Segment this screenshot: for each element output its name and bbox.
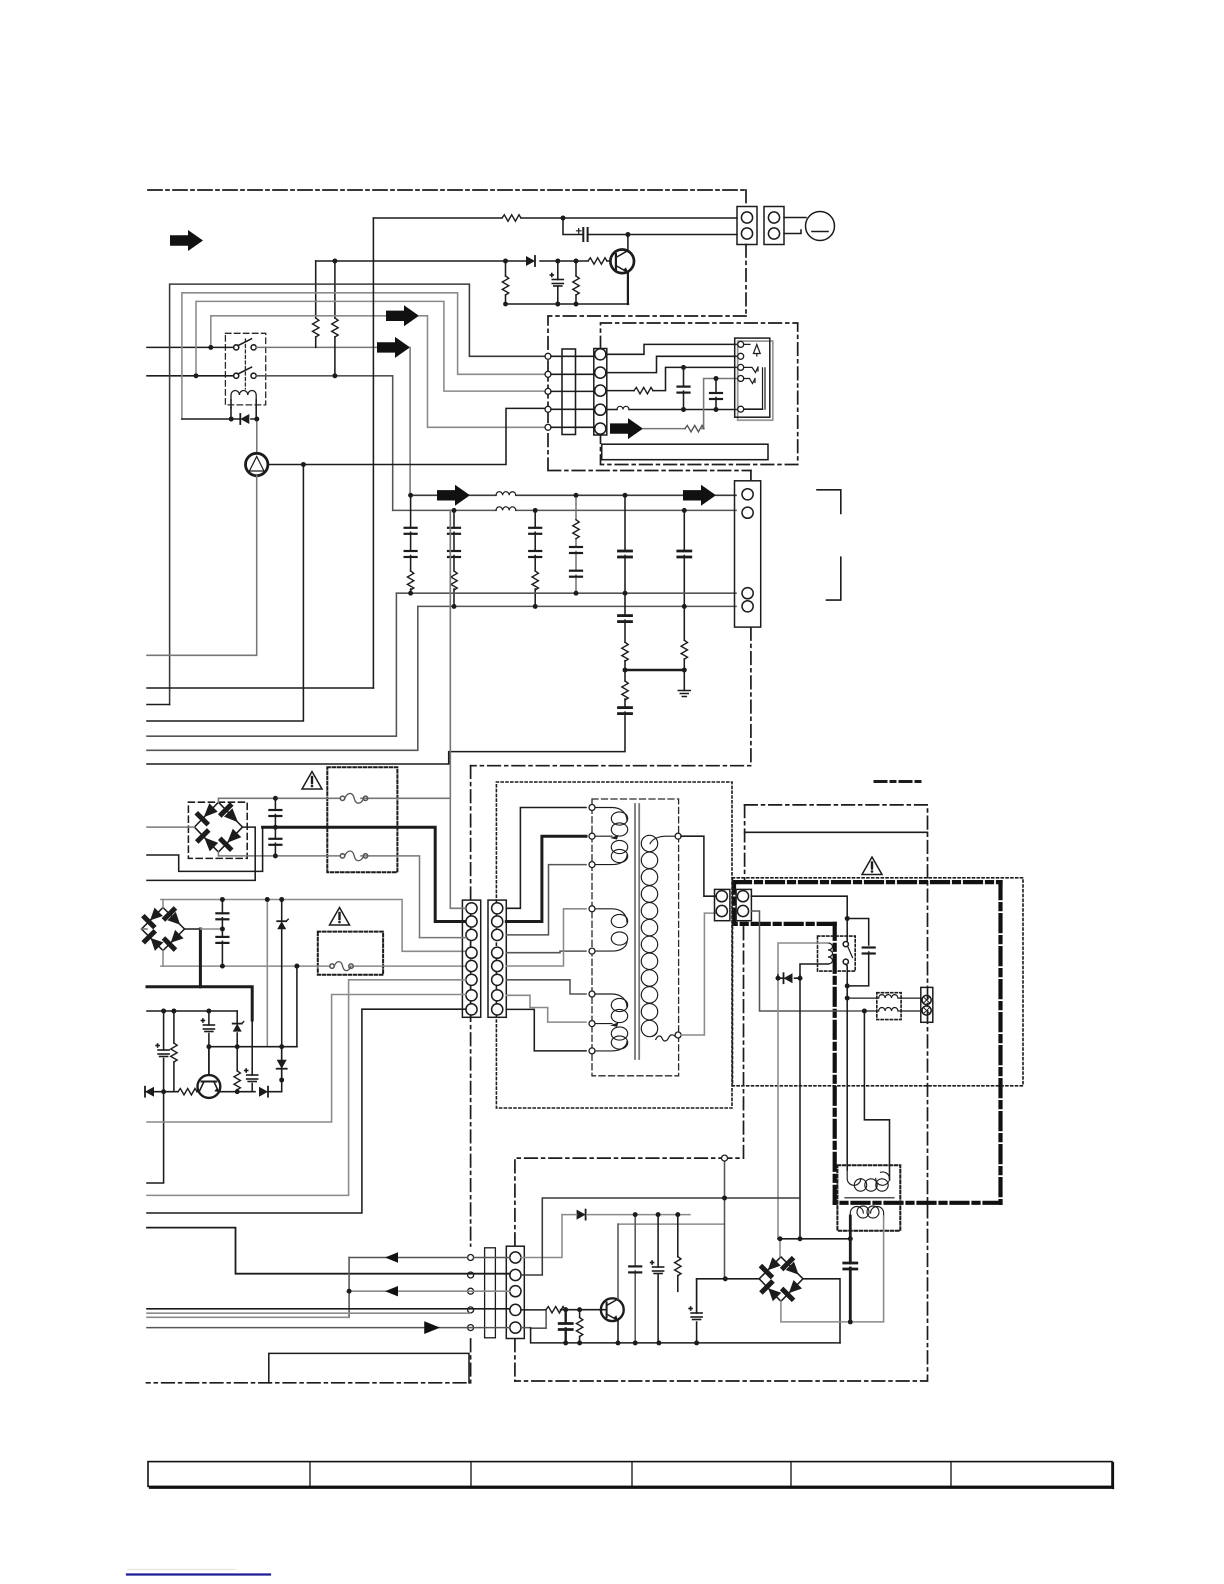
- dash-dot right module box top and right: [515, 805, 928, 1381]
- node N rail x535: [533, 508, 538, 513]
- relay K2 pin1: [738, 341, 744, 347]
- wire y1239 link: [778, 1238, 850, 1240]
- node x222 y929: [220, 927, 225, 932]
- relay K2 pin5: [738, 406, 744, 412]
- wire Q1 emitter: [627, 272, 629, 304]
- wire J3 pin3 res: [606, 367, 738, 390]
- node x209 y1047: [207, 1044, 212, 1049]
- node y1011 x174: [172, 1009, 177, 1014]
- T1 primary terminal 6: [589, 991, 595, 997]
- connector J4a: [715, 889, 730, 920]
- thick vertical x200: [199, 929, 202, 987]
- relay K2 pin3: [738, 364, 744, 370]
- diode D (y261): [526, 256, 535, 266]
- node thermal tap: [301, 462, 306, 467]
- wire y261 base feed: [316, 260, 611, 262]
- T1 thermal fuse: [656, 1035, 675, 1041]
- J3 pin5: [595, 423, 606, 434]
- dash-dot top border of primary section: [148, 189, 746, 191]
- node x684 y670: [682, 668, 687, 673]
- arrow marker top left: [170, 230, 203, 251]
- inductor L2a: [496, 492, 516, 496]
- J2 pin3: [742, 588, 753, 599]
- cap C x716 plates: [710, 393, 722, 399]
- node y593 x576: [574, 591, 579, 596]
- node x800 y1239: [798, 1236, 803, 1241]
- chain x697 upper cap thick: [696, 1279, 698, 1313]
- BR2 left vertex AC wire: [142, 928, 148, 930]
- node x294 y966: [295, 964, 300, 969]
- warning triangle W2: [330, 908, 350, 926]
- wire J5b pin1 to trafo: [506, 808, 586, 909]
- resistor chain x174: [173, 1011, 175, 1092]
- node wire1 x210: [208, 345, 213, 350]
- BR2 right vertex to thick bus: [185, 928, 201, 930]
- rail nodes: [563, 1341, 699, 1346]
- output choke winding1: [847, 995, 921, 999]
- base wire y1092: [145, 1091, 198, 1093]
- wire N input y376: [147, 375, 234, 377]
- node y966 x222: [220, 964, 225, 969]
- flyback diode across coil: [182, 418, 257, 420]
- resistor chain R x576: [575, 261, 577, 304]
- node x275 thick line: [273, 825, 278, 830]
- node coil left: [229, 417, 234, 422]
- border circle b1: [468, 1255, 474, 1261]
- node pin3 junction: [347, 1289, 352, 1294]
- wire EMI L rail y495: [410, 494, 736, 496]
- cap chain x410 caps: [410, 495, 412, 593]
- wire EMI N rail y510: [393, 509, 736, 511]
- chain x625 plate: [619, 551, 632, 557]
- wire thermal right: [268, 408, 545, 464]
- bridge rectifier BR3 outline: [759, 1257, 803, 1302]
- resistor R x316 body: [313, 318, 319, 337]
- switch S1b: [234, 367, 257, 378]
- ground symbol: [678, 691, 690, 697]
- lower chain x684 resistor: [683, 606, 685, 690]
- thick wire choke bottom left down: [849, 1216, 852, 1239]
- fuse F1: [340, 793, 367, 803]
- resistor R x237 lower: [234, 1071, 240, 1090]
- T1 secondary bottom lead: [652, 1033, 657, 1036]
- dashed link line inside switch box: [244, 339, 246, 389]
- capacitor C x716: [715, 379, 717, 410]
- wire y218 to connector J1: [373, 217, 737, 219]
- bus y1214 wire: [562, 1214, 690, 1216]
- dash-dot outer box of relay unit section: [548, 316, 751, 471]
- cap chain x697 top wire: [696, 1278, 698, 1280]
- node choke feed: [845, 996, 850, 1001]
- node y1092 x237: [235, 1089, 240, 1094]
- wire after S1b down to EMI N: [256, 376, 393, 511]
- relay K3 coil top wire: [778, 943, 828, 975]
- relay switch lower wire: [846, 964, 847, 986]
- node bus1214 x635: [633, 1212, 638, 1217]
- dotted fuse box F1: [327, 767, 397, 872]
- chain x635 cap: [634, 1215, 636, 1343]
- wire L input y347: [147, 346, 234, 348]
- table thick bottom shadow: [150, 1487, 1113, 1489]
- wire BR2 right to cap node: [200, 928, 222, 930]
- wire J3 pin5 resistor up: [643, 379, 738, 429]
- J2 pin1: [742, 489, 753, 500]
- node L rail x410: [408, 493, 413, 498]
- node x683 on pin4 wire: [681, 407, 686, 412]
- dashed box around transformer windings: [592, 799, 679, 1076]
- inductor L pin4: [617, 406, 629, 409]
- node y1092 x163: [161, 1089, 166, 1094]
- diode D left edge: [145, 1087, 154, 1097]
- switch S1a: [234, 339, 257, 350]
- wire J1b pin2 to motor: [784, 230, 801, 234]
- border circle pin2: [545, 371, 551, 377]
- relay coil K1: [231, 391, 256, 420]
- ground rail y593: [396, 592, 736, 594]
- connector J5b column: [488, 900, 506, 1017]
- wire J5b pin5 to trafo: [506, 909, 586, 966]
- BR1 diode top-left: [198, 815, 207, 824]
- BR1 diode top-right: [222, 806, 231, 815]
- wire J7 pin1 with arrow left: [349, 1257, 510, 1259]
- zener chain x237: [236, 1011, 238, 1092]
- border circle pin5: [545, 424, 551, 430]
- output connector J6: [921, 987, 933, 1022]
- node y1239: [848, 1236, 853, 1241]
- res-cap chain x576: [575, 495, 577, 593]
- node bridge top feed: [778, 1236, 783, 1241]
- line choke core bar: [845, 1197, 894, 1199]
- connector J3 column: [594, 349, 607, 436]
- BR3 top vertex feed: [779, 1239, 781, 1257]
- T1 primary terminal 3: [589, 862, 595, 868]
- dotted box around line choke: [837, 1165, 900, 1230]
- wire J5a pin7 staircase: [147, 995, 466, 1123]
- resistor chain R x505: [505, 261, 507, 304]
- wire J3 pin1 to relay K2: [606, 344, 738, 354]
- cap chain x535: [534, 510, 536, 606]
- relay K3 switch upper contact: [846, 919, 848, 942]
- wire J5b pin7 to trafo: [506, 995, 586, 1022]
- dotted box around main transformer: [496, 782, 732, 1108]
- diode D relay flyback: [784, 973, 793, 983]
- grey rail y899: [161, 900, 466, 952]
- wire choke bottom right down: [850, 1216, 883, 1322]
- BR3 right vertex to rail: [803, 1279, 840, 1343]
- pcap chain x163: [147, 1011, 164, 1183]
- pcap C x697: [689, 1307, 702, 1320]
- resistor R x174: [171, 1043, 177, 1062]
- lower x625 resistor1: [622, 642, 628, 661]
- wire BR1 top to fuse F1: [218, 510, 450, 802]
- BR3 bottom vertex wire: [781, 1301, 850, 1322]
- flyback diode row y978: [778, 975, 800, 978]
- BR2 diode top-left: [145, 917, 154, 926]
- node rail x281: [279, 897, 284, 902]
- footer blue link line: [127, 1573, 270, 1575]
- cap C x635: [629, 1266, 641, 1272]
- staircase wire A: [170, 284, 545, 704]
- node y233 collector tap: [626, 232, 631, 237]
- relay K2 pin2: [738, 353, 744, 359]
- wire grey pair upper: [147, 1312, 470, 1314]
- wire x294 up: [296, 966, 298, 1047]
- bottom connector J7: [506, 1246, 524, 1338]
- wire AC L to BR1 left: [147, 826, 194, 828]
- capacitor chain C+ x558: [557, 261, 559, 304]
- wires through filter block: [551, 356, 595, 427]
- node wire2 x196: [194, 373, 199, 378]
- BR3 diode top-right: [783, 1259, 791, 1267]
- cap chain x410 plate2: [405, 551, 417, 557]
- wire y688 to long vertical: [147, 687, 373, 689]
- rail y1011: [147, 1010, 237, 1012]
- node rail x505: [503, 302, 508, 307]
- dash-dot inner relay unit box: [601, 323, 798, 465]
- wire BR1 right loop: [147, 827, 255, 880]
- staircase wire D: [211, 316, 386, 348]
- cap chain x410 resistor: [407, 571, 413, 590]
- node y593 x410: [408, 591, 413, 596]
- zener chain x281: [281, 900, 283, 1081]
- T1 primary terminal 1: [589, 805, 595, 811]
- resistor R (wire y218): [502, 215, 521, 221]
- wire x281 to diode wire: [281, 1080, 283, 1092]
- J3 pin3: [595, 385, 606, 396]
- thin line inside module top: [745, 831, 928, 833]
- resistor R pin5: [685, 425, 704, 431]
- wire x252 cap chain lower: [251, 1020, 253, 1092]
- dotted fuse box F2: [318, 932, 383, 975]
- node x625 y670: [623, 668, 628, 673]
- dotted relay box right section: [818, 936, 856, 971]
- wire J5a pin6 staircase: [147, 980, 466, 1196]
- chain x576 plate1: [570, 547, 582, 553]
- cap chain x454 plate1: [448, 528, 460, 534]
- relay K2 common bar: [763, 368, 766, 409]
- capacitor C relay: [863, 948, 875, 954]
- T1 primary terminal 4: [589, 906, 595, 912]
- wire J5b pin6 to trafo: [506, 980, 586, 994]
- cap chain x535 resistor: [532, 571, 538, 590]
- node x237 y1047: [235, 1044, 240, 1049]
- wire J5b pin3 to trafo: [506, 865, 586, 935]
- dash-dot right module box left edge upper: [744, 805, 746, 881]
- resistor R base2: [579, 1310, 581, 1343]
- resistor R base: [546, 1307, 565, 1313]
- wire Q1 collector: [627, 235, 629, 251]
- wire J7 pin5 with arrow right: [147, 1327, 510, 1329]
- lower x625 plate: [619, 616, 632, 622]
- thick link y670: [625, 669, 684, 672]
- cap chain x535 plate1: [529, 528, 541, 534]
- connector J1a: [737, 207, 757, 245]
- chain x275 plate1: [269, 810, 281, 816]
- diode D emitter: [259, 1087, 268, 1097]
- node on y218: [561, 216, 566, 221]
- node y1011 x163: [161, 1009, 166, 1014]
- cap chain x535 plate2: [529, 551, 541, 557]
- wire arrow A3 down to EMI L: [409, 347, 411, 495]
- line choke T2 top winding: [847, 1170, 889, 1191]
- wire J7 pin4 resistor to base: [521, 1309, 606, 1311]
- wire J7 pin5 base path: [521, 1310, 546, 1329]
- wire relay drive grey down: [777, 978, 779, 1239]
- thermal protector TH: [246, 453, 268, 475]
- thick cap base: [565, 1310, 567, 1323]
- node bus1214 x658: [656, 1212, 661, 1217]
- dotted box right section: [733, 878, 1024, 1086]
- wire node down: [846, 986, 848, 998]
- relay K2 contact 3: [744, 379, 755, 384]
- resistor R x335 to wire2: [334, 261, 336, 376]
- wire coil to thermal protector: [256, 419, 258, 453]
- table outline: [148, 1462, 1112, 1487]
- wire T1 sec bottom to J4a: [681, 913, 716, 1035]
- arrow left pin3: [385, 1286, 398, 1296]
- cap chain x454 plate2: [448, 551, 460, 557]
- node y261 a: [503, 259, 508, 264]
- wire node y218 down to cap: [563, 218, 583, 235]
- node N rail x684: [682, 508, 687, 513]
- T1 winding3 tap arrow: [610, 1022, 619, 1027]
- arrow A5 on L rail: [683, 485, 716, 506]
- relay K2 box shadow: [738, 341, 773, 420]
- rail y966: [161, 965, 466, 967]
- node rail x267: [265, 897, 270, 902]
- border circle b5: [468, 1325, 474, 1331]
- border circle b2: [468, 1272, 474, 1278]
- wire J5b pin4 to trafo: [506, 951, 586, 953]
- BR1 diode bottom-left: [199, 832, 208, 841]
- grey wire x267 down: [266, 900, 268, 1047]
- wire AC N stepped: [147, 827, 263, 871]
- Q2 emitter wire right: [219, 1091, 282, 1093]
- cap chain x454: [453, 510, 455, 606]
- arrow left pin1: [385, 1252, 398, 1262]
- wire J7 pin1 right side up: [521, 1215, 562, 1258]
- wire pin4 black: [147, 1308, 510, 1310]
- wire J5b pin2 to trafo thick: [506, 836, 586, 921]
- lower chain x625 caps: [147, 593, 625, 764]
- relay K2 contact 2: [744, 367, 758, 373]
- motor M: [806, 212, 835, 241]
- capacitor C line thick: [844, 1263, 857, 1269]
- T1 winding1 tap arrow: [610, 835, 619, 840]
- node y606 x684: [682, 604, 687, 609]
- T1 secondary terminal top: [675, 833, 681, 839]
- relay K2 box: [735, 338, 770, 417]
- chain x576 resistor: [573, 520, 579, 539]
- chain x576 plate2: [570, 571, 582, 577]
- diode D x281 down: [277, 1060, 287, 1069]
- chain x684 plate: [678, 551, 691, 557]
- resistor R x316 to wire1: [315, 261, 317, 347]
- T1 primary winding 3: [595, 994, 628, 1051]
- resistor R x335 body: [332, 318, 338, 337]
- thick cap lower lead: [849, 1268, 852, 1322]
- node y1011 x209: [207, 1009, 212, 1014]
- node relay bottom: [845, 984, 850, 989]
- wire after S1a to arrow: [256, 346, 377, 348]
- cap chain x625 upper: [624, 495, 626, 593]
- chain x678 resistor: [677, 1215, 679, 1292]
- node diode left: [776, 976, 781, 981]
- wire J1b pin1 to motor: [784, 217, 806, 219]
- node y606 x454: [452, 604, 457, 609]
- wire tap x303 down-left: [147, 465, 303, 722]
- wire J7 pin2 right side up black bus: [521, 1198, 800, 1275]
- dash-dot border drop to connector J1: [745, 190, 747, 316]
- node fuse wire x275: [273, 796, 278, 801]
- J3 pin4: [595, 404, 606, 415]
- cap C x683 plates: [678, 387, 690, 393]
- transistor Q3: [601, 1298, 624, 1321]
- node relay top: [845, 916, 850, 921]
- node y606 x535: [533, 604, 538, 609]
- wire J5a pin1 from fuse1: [450, 510, 466, 908]
- cap chain x454 resistor: [451, 571, 457, 590]
- bus y1224 wire: [619, 1223, 725, 1225]
- node x275 y856: [273, 854, 278, 859]
- chain x275 plate2: [269, 839, 281, 845]
- pcap C x209: [201, 1019, 214, 1032]
- arrow A4 on L rail: [437, 485, 470, 506]
- node bus1214 x678: [675, 1212, 680, 1217]
- dashed box around BR1: [188, 802, 247, 858]
- node y261 b: [555, 259, 560, 264]
- bridge rectifier BR1 outline: [194, 802, 242, 852]
- cap chain x222: [221, 900, 223, 967]
- wire D continues to EMI circle5: [419, 316, 545, 428]
- wire thermal bottom down-left: [147, 476, 257, 656]
- border circle x725: [722, 1155, 728, 1161]
- ground rail y1343: [531, 1328, 840, 1343]
- BR3 diode bottom-right: [783, 1290, 791, 1298]
- wire T1 sec top to J4a: [681, 836, 716, 896]
- connector J2: [735, 481, 761, 627]
- wire J5b pin8 to trafo: [506, 1009, 586, 1051]
- BR1 diode bottom-right: [222, 840, 231, 849]
- T1 secondary top lead: [650, 836, 678, 844]
- J5a pins: [466, 903, 477, 1015]
- arrow A6 on J3 pin5 wire: [610, 418, 643, 439]
- BR3 diode top-left: [762, 1267, 771, 1276]
- footer faint line: [128, 1569, 235, 1571]
- node x725 on left wire: [723, 1276, 728, 1281]
- node output return: [862, 1009, 867, 1014]
- node x725 y1198: [722, 1196, 727, 1201]
- dash-dot below bottom connector: [514, 1339, 516, 1381]
- T1 secondary winding spring: [641, 835, 678, 1036]
- BR3 diode bottom-left: [763, 1283, 772, 1292]
- wire J5a pin3 from fuse2: [420, 937, 467, 939]
- border circle b3: [468, 1288, 474, 1294]
- staircase wire B: [182, 293, 545, 419]
- wire choke feed down: [846, 998, 848, 1170]
- resistor R x678: [675, 1257, 681, 1276]
- dash-dot short segment top right of EMI: [875, 780, 920, 783]
- node base b: [577, 1307, 582, 1312]
- node x716 on pin4 wire: [714, 407, 719, 412]
- dash-dot left border of SMPS section: [147, 766, 471, 1383]
- pcap C x658: [651, 1261, 664, 1274]
- bracket right of J2: [817, 490, 841, 600]
- node wire2 x335: [333, 373, 338, 378]
- resistor R base series: [588, 258, 607, 264]
- wire J4b pin1 to relay node: [751, 896, 847, 918]
- resistor R base: [178, 1089, 197, 1095]
